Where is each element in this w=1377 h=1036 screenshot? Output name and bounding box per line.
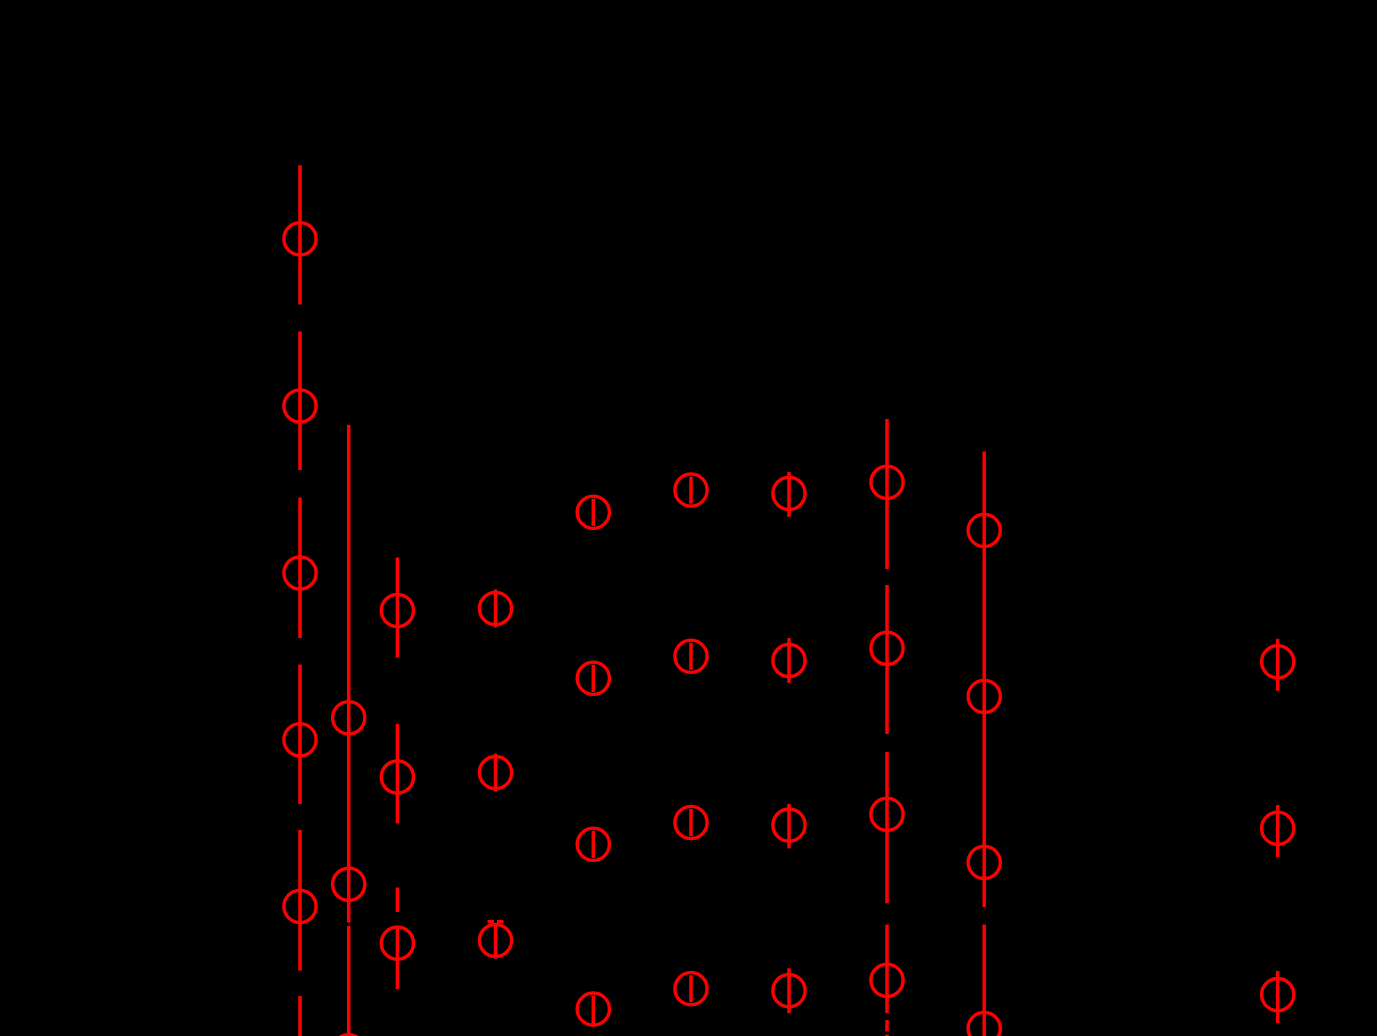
data point marker column C y=943.2 (381, 927, 413, 959)
error bar segment column A (298, 165, 302, 304)
data point marker column I y=530.4 (968, 514, 1000, 546)
data point marker column F y=490.1 (675, 474, 707, 506)
error bar segment column F (689, 975, 693, 1002)
error bar segment column H (885, 1035, 889, 1036)
error bar segment column C (396, 558, 400, 658)
errorbar series column H at x=887.0 (871, 419, 903, 1036)
error bar segment column B (347, 425, 351, 923)
data point marker column G y=990.7 (773, 975, 805, 1007)
error bar segment column A (298, 996, 302, 1036)
errorbar series column C at x=397.4 (381, 558, 413, 990)
error bar segment column G (787, 804, 791, 849)
data point marker column F y=656.3 (675, 640, 707, 672)
error bar segment column A (298, 332, 302, 471)
error bar segment column C (396, 724, 400, 824)
error bar segment column I (982, 925, 986, 1036)
error bar segment column F (689, 809, 693, 836)
error bar segment column H (885, 752, 889, 903)
errorbar series column I at x=984.2 (968, 452, 1000, 1036)
error bar segment column D (494, 926, 498, 959)
data point marker column B y=717.8 (333, 702, 365, 734)
data point marker column H y=482.3 (871, 466, 903, 498)
errorbar series column E at x=593.3 (577, 496, 609, 1025)
errorbar series column F at x=691.0 (675, 474, 707, 1005)
error bar segment column E (592, 665, 596, 692)
data point marker column E y=678.3 (577, 662, 609, 694)
data point marker column H y=814.3 (871, 798, 903, 830)
error bar segment column G (787, 968, 791, 1013)
error bar segment column E (592, 499, 596, 526)
data point marker column J y=828.3 (1262, 812, 1294, 844)
error bar segment column H (885, 1020, 889, 1032)
data point marker column G y=493.4 (773, 477, 805, 509)
errorbar series column A at x=300.0 (284, 165, 316, 1036)
data point marker column B y=884.3 (333, 868, 365, 900)
data point marker column A y=238.8 (284, 223, 316, 255)
data point marker column J y=661.8 (1262, 646, 1294, 678)
error bar segment column A (298, 498, 302, 639)
data point marker column D y=940.5 (479, 924, 511, 956)
error bar segment column H (885, 925, 889, 1014)
error bar segment column J (1276, 639, 1280, 691)
data point marker column C y=777.0 (381, 761, 413, 793)
error bar segment column H (885, 419, 889, 569)
error bar segment column A (298, 665, 302, 805)
error bar segment column J (1276, 971, 1280, 1023)
data point marker column C y=610.5 (381, 594, 413, 626)
error bar segment column G (787, 638, 791, 683)
data point marker column F y=822.5 (675, 806, 707, 838)
error bar segment column E (592, 831, 596, 858)
error bar segment column F (689, 477, 693, 504)
error bar segment column H (885, 585, 889, 734)
data point marker column I y=1028.4 (968, 1012, 1000, 1036)
data point marker column A y=406.0 (284, 390, 316, 422)
data point marker column B y=1050.8 (333, 1035, 365, 1036)
data point marker column J y=994.6 (1262, 979, 1294, 1011)
data point marker column A y=739.8 (284, 724, 316, 756)
data point marker column G y=825.1 (773, 809, 805, 841)
error bar segment column D (494, 590, 498, 628)
error bar segment column B (347, 926, 351, 1036)
errorbar series column J at x=1277.7 (1262, 639, 1294, 1023)
data point marker column I y=696.4 (968, 680, 1000, 712)
errorbar series column B at x=348.7 (333, 425, 365, 1036)
data point marker column A y=906.4 (284, 890, 316, 922)
data point marker column H y=980.3 (871, 964, 903, 996)
data point marker column I y=862.4 (968, 846, 1000, 878)
error bar segment column F (689, 643, 693, 670)
data point marker column E y=844.3 (577, 828, 609, 860)
error bar segment column I (982, 452, 986, 908)
error bar segment column E (592, 996, 596, 1024)
error bar segment column J (1276, 805, 1280, 857)
error bar segment column C (396, 888, 400, 913)
data point marker column D y=608.5 (479, 592, 511, 624)
error bar segment column C (396, 926, 400, 989)
error bar segment column D (494, 754, 498, 792)
data point marker column E y=1009.1 (577, 993, 609, 1025)
error bar segment column G (787, 472, 791, 517)
data point marker column E y=512.3 (577, 496, 609, 528)
data point marker column D y=772.6 (479, 757, 511, 789)
errorbar series column D at x=495.5 (479, 590, 511, 959)
data point marker column A y=573.0 (284, 557, 316, 589)
error bar segment column A (298, 830, 302, 971)
errorbar series column G at x=789.0 (773, 472, 805, 1013)
artifact dashes above column D bottom marker (488, 920, 504, 923)
data point marker column H y=648.3 (871, 632, 903, 664)
data point marker column F y=988.7 (675, 973, 707, 1005)
data point marker column G y=660.5 (773, 644, 805, 676)
